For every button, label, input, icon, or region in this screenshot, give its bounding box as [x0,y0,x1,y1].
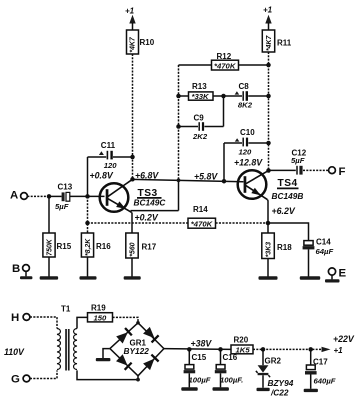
svg-text:R10: R10 [140,38,155,47]
ground R16 [80,276,97,279]
svg-text:120: 120 [239,147,253,156]
svg-text:+0.8V: +0.8V [90,170,114,180]
ground GR2 [257,388,270,391]
resistor R12 470K [179,60,269,70]
resistor R10 4K7 [127,30,139,54]
wire secondary bottom to bridge bottom [77,370,138,379]
capacitor C10 120 [224,138,269,182]
svg-text:R12: R12 [217,52,232,61]
resistor R16 8,2K [81,233,93,277]
resistor R19 150 [88,313,113,323]
svg-text:120: 120 [104,161,118,170]
node TS3 base junction [85,194,90,199]
svg-text:+38V: +38V [191,338,213,348]
svg-text:150: 150 [94,314,108,323]
node C10/base line junction [222,179,227,184]
zener diode GR2 BZY94/C22 [256,349,270,387]
svg-text:*560: *560 [129,242,136,256]
wire TS3 label box bottom edge [131,210,179,212]
transistor TS4 BC149B [238,170,269,223]
svg-text:C11: C11 [101,141,116,150]
node C17 junction [308,347,313,352]
svg-text:*4K7: *4K7 [266,35,273,51]
svg-text:8K2: 8K2 [238,100,253,109]
wire emitter node to C14 [268,223,309,241]
svg-text:T1: T1 [61,304,71,313]
svg-text:+12.8V: +12.8V [234,158,263,168]
resistor R17 560 [126,233,138,277]
capacitor C8 8K2 [224,91,269,101]
svg-text:BC149C: BC149C [134,198,167,208]
capacitor C17 640uF [305,349,317,388]
svg-text:R17: R17 [142,242,157,251]
svg-text:5µF: 5µF [291,156,305,165]
ground R15 [40,276,58,279]
terminal F [329,166,346,178]
svg-text:+0.2V: +0.2V [135,213,159,223]
node TS3 collector junction [130,177,135,182]
svg-text:G: G [11,374,20,386]
node bridge top vertex [136,321,140,325]
svg-text:R13: R13 [192,82,207,91]
terminal G [11,374,30,386]
svg-text:GR2: GR2 [265,356,282,365]
svg-text:C14: C14 [316,238,331,247]
ground R17 [124,276,141,279]
ground C16 [213,387,229,390]
wire G to transformer primary [30,370,57,378]
svg-text:*4K7: *4K7 [130,36,137,52]
wire bridge left to ground [103,349,110,359]
capacitor C15 100uF [184,349,196,387]
svg-text:*470K: *470K [214,61,237,70]
resistor R20 1K5 [231,345,253,354]
svg-text:/C22: /C22 [270,387,289,397]
terminal B [12,263,29,277]
label TS3 [137,188,162,199]
svg-text:R14: R14 [193,205,208,214]
node R13/C8 junction [221,94,226,99]
wire feedback R14 line [88,222,269,224]
svg-text:R20: R20 [234,336,249,345]
ground E [325,279,340,282]
wire node to C13 [49,195,62,197]
supply +1 arrow (R10 top) [125,7,136,31]
bridge top-right diode [138,323,164,349]
svg-text:H: H [11,312,19,324]
svg-text:750K: 750K [46,238,53,255]
wire TS3 collector to TS4 base [133,179,244,181]
transistor TS3 BC149C [100,179,133,233]
svg-text:F: F [339,166,346,178]
svg-text:110V: 110V [4,347,25,357]
node C9 left junction [176,124,181,129]
node C8 right junction [266,94,271,99]
svg-text:R11: R11 [277,39,292,48]
svg-text:R16: R16 [96,242,111,251]
svg-text:5µF: 5µF [55,202,69,211]
capacitor C14 64uF [303,241,315,277]
node R16/feedback junction [85,221,90,226]
ground C15 [181,387,197,390]
wire feedback vertical (node X riser) [178,65,180,180]
svg-text:*8,2K: *8,2K [85,238,92,256]
capacitor C9 2K2 [179,96,224,131]
resistor R13 33K [179,92,224,101]
ground R18 [259,276,278,279]
wire R11 to TS4 collector node [268,52,270,171]
svg-text:+5.8V: +5.8V [194,171,218,181]
svg-text:C10: C10 [240,128,255,137]
svg-text:C9: C9 [194,113,205,122]
node input junction [47,194,52,199]
ground C14 [300,276,320,279]
capacitor C16 100uF [215,349,227,387]
svg-text:+6.2V: +6.2V [272,206,296,216]
svg-text:BY122: BY122 [124,346,150,356]
transformer T1 core [65,329,69,371]
svg-text:C17: C17 [313,357,328,366]
node C15 junction [187,347,192,352]
resistor R15 750K [43,196,55,276]
svg-text:640µF: 640µF [314,376,336,385]
wire base node down to R16 [87,196,89,233]
capacitor C11 120 with polarity mark [88,151,133,197]
svg-text:B: B [12,263,20,275]
svg-text:+1: +1 [334,346,344,355]
wire TS3 label box right edge [178,180,180,210]
node R12/R11 junction [266,63,271,68]
svg-text:C15: C15 [192,353,207,362]
wire A to input node [27,195,49,197]
svg-text:100µF: 100µF [189,375,211,384]
svg-text:C13: C13 [58,183,73,192]
wire R10 to TS3 collector node [132,54,134,179]
node TS4 collector junction [266,168,271,173]
svg-text:+1: +1 [263,6,273,15]
node C11/collector line junction [130,155,135,160]
node TS4 emitter junction [266,221,271,226]
ground C17 [304,389,318,392]
svg-text:BC149B: BC149B [272,191,304,201]
resistor R18 3K3 [262,223,275,277]
svg-text:1K5: 1K5 [236,345,251,354]
svg-text:*3K3: *3K3 [265,242,272,257]
output arrow +22V [322,347,331,352]
node C16 junction [218,347,223,352]
svg-text:R19: R19 [91,303,106,312]
resistor R14 470K [188,218,216,228]
svg-text:C8: C8 [239,82,250,91]
terminal H [11,312,30,324]
node bridge bottom junction [136,378,140,382]
svg-text:*33K: *33K [192,92,211,101]
svg-text:*470K: *470K [191,220,214,229]
node GR2 junction [261,347,266,352]
svg-text:C16: C16 [223,353,238,362]
wire H to transformer primary [30,317,57,329]
ground B [20,276,32,279]
svg-text:+22V: +22V [333,334,355,344]
node C10 right junction [266,141,271,146]
svg-text:2K2: 2K2 [192,132,208,141]
svg-text:R18: R18 [277,243,292,252]
wire C13 to base node [70,195,88,197]
node R13 left junction [176,94,181,99]
transformer T1 secondary winding [74,329,77,370]
svg-text:R15: R15 [57,242,72,251]
wire secondary top to R19 [77,317,88,328]
label TS4 [277,178,299,189]
wire R19 to bridge top [113,317,139,322]
capacitor C12 5uF [269,166,329,175]
svg-text:A: A [10,190,18,202]
resistor R11 4K7 [262,30,274,52]
supply +1 arrow (R11 top) [263,6,273,31]
transformer T1 primary winding [57,329,60,370]
wire bridge right to +38V rail [164,348,231,351]
svg-text:+1: +1 [125,7,135,16]
terminal E [328,268,346,280]
ground GR1 [96,358,111,361]
bridge bottom-right diode [138,349,164,376]
rectifier GR1 BY122 bridge top-left diode [110,323,138,349]
node riser bottom junction [177,178,181,182]
svg-text:64µF: 64µF [316,247,334,256]
svg-text:100µF.: 100µF. [220,375,243,384]
wire R20 to output [253,348,322,350]
wire base node to TS3 base [88,195,105,197]
svg-text:E: E [339,268,347,280]
bridge bottom-left diode [110,349,138,376]
terminal A [10,190,27,202]
capacitor C13 5uF [62,192,70,201]
